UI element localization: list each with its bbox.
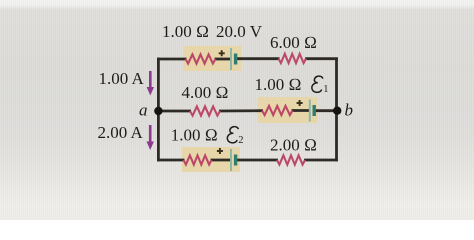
svg-text:1.00 Ω: 1.00 Ω [162,22,209,41]
resistor 2.00 ohm (bottom right) [277,155,305,164]
wire top rail segments [157,57,338,60]
svg-text:b: b [345,101,354,120]
label node a [139,101,148,120]
label emf E1 [312,76,329,95]
wire bottom rail segments [157,159,338,162]
svg-text:1: 1 [323,84,328,95]
label 1.00 ohm (top) [162,22,209,41]
resistor 4.00 ohm (middle) [190,106,220,115]
label 2.00 A [98,123,144,142]
resistor R1 1.00 ohm (top left) [186,54,216,63]
highlight box for 1.00 ohm resistor and emf E1 [258,97,317,123]
svg-text:2.00 Ω: 2.00 Ω [270,136,317,155]
current arrow 1.00 A [147,71,154,96]
label emf E2 [227,127,243,146]
highlight box for R1 and 20.0 V battery [183,46,241,71]
svg-text:20.0 V: 20.0 V [216,22,263,41]
resistor 1.00 ohm (bottom left) [184,155,212,164]
node b junction dot [333,107,341,115]
label 20.0 V (top) [216,22,263,41]
label 1.00 ohm (bottom) [171,126,218,145]
label node b [345,101,354,120]
svg-text:1.00 Ω: 1.00 Ω [255,75,302,94]
svg-text:1.00 A: 1.00 A [99,69,145,88]
svg-text:a: a [139,101,148,120]
svg-text:2: 2 [238,135,243,146]
svg-text:4.00 Ω: 4.00 Ω [182,83,229,102]
battery emf E1 (middle) [297,100,315,122]
resistor 6.00 ohm (top right) [279,54,307,63]
wire left vertical [157,58,160,162]
svg-text:2.00 A: 2.00 A [98,123,144,142]
current arrow 2.00 A [147,125,154,150]
battery 20.0 V (top) [219,48,236,70]
label 1.00 ohm (middle) [255,75,302,94]
resistor 1.00 ohm (middle right) [262,106,293,115]
svg-text:6.00 Ω: 6.00 Ω [270,33,317,52]
wire right vertical [335,58,338,162]
label 1.00 A [99,69,145,88]
battery emf E2 (bottom) [217,148,236,171]
label 6.00 ohm [270,33,317,52]
svg-text:1.00 Ω: 1.00 Ω [171,126,218,145]
wire middle rail segments (a to b) [157,109,338,112]
label 4.00 ohm [182,83,229,102]
node a junction dot [154,107,162,115]
highlight box for 1.00 ohm resistor and emf E2 [182,147,240,172]
label 2.00 ohm [270,136,317,155]
